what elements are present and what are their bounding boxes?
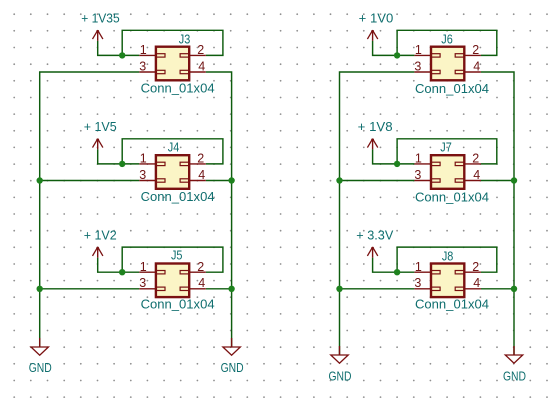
wire pin3 to left rail [340,180,415,182]
pin 1 of J7 [414,152,431,166]
power net label +1V2 [84,229,117,243]
power symbol +1V35 arrow [93,30,103,41]
power net label +1V35 [81,12,120,26]
power symbol +1V8 arrow [367,138,377,149]
wire power feed [373,258,398,273]
junction right rail [228,286,234,292]
ground symbol [331,346,348,363]
svg-text:J5: J5 [171,248,183,262]
svg-text:1: 1 [140,152,147,166]
wire to pin 1 [122,271,139,273]
wire pin2 loop [122,139,223,164]
wire pin3 to left rail [340,288,415,290]
power net label +1V0 [359,12,394,26]
svg-text:4: 4 [198,276,205,290]
svg-text:1: 1 [415,260,422,274]
svg-text:Conn_01x04: Conn_01x04 [141,190,215,204]
svg-text:3: 3 [414,59,421,73]
svg-text:J7: J7 [440,140,452,154]
pin 3 of J5 [139,276,156,290]
wire to pin 1 [122,163,139,165]
ground label GND [503,369,526,383]
svg-text:4: 4 [198,168,205,182]
svg-text:1: 1 [140,260,147,274]
value label Conn_01x04 of J3 [141,82,215,96]
power symbol +1V5 arrow [93,138,103,149]
junction [394,52,400,58]
value label Conn_01x04 of J6 [415,82,489,96]
power net label +1V8 [358,120,393,134]
reference label J5 [171,248,183,262]
junction [119,269,125,275]
svg-text:GND: GND [221,361,244,375]
pin 4 of J6 [464,59,481,73]
svg-text:Conn_01x04: Conn_01x04 [415,298,489,312]
pin 4 of J4 [189,168,206,182]
junction [394,161,400,167]
wire to pin 1 [397,163,414,165]
svg-text:GND: GND [503,369,526,383]
pin 3 of J7 [414,168,431,182]
junction left rail [37,177,43,183]
wire pin4 to right rail [206,180,232,182]
svg-text:4: 4 [198,59,205,73]
value label Conn_01x04 of J7 [415,190,489,204]
wire to pin 1 [397,54,414,56]
pin 2 of J7 [464,152,481,166]
pin 1 of J5 [139,260,156,274]
connector J8 body [431,264,465,298]
svg-text:2: 2 [197,43,204,57]
svg-text:+ 1V8: + 1V8 [358,120,393,134]
svg-text:J4: J4 [168,140,180,154]
svg-text:Conn_01x04: Conn_01x04 [415,82,489,96]
pin 4 of J5 [189,276,206,290]
wire right rail [481,72,514,355]
svg-text:4: 4 [473,59,480,73]
wire pin2 loop [397,30,497,55]
power symbol +1V2 arrow [93,247,103,258]
svg-text:4: 4 [473,276,480,290]
connector J5 body [156,264,190,298]
reference label J8 [442,249,454,263]
svg-text:1: 1 [415,43,422,57]
svg-text:J8: J8 [442,249,454,263]
svg-text:3: 3 [139,276,146,290]
svg-text:+ 1V5: + 1V5 [84,120,117,134]
pin 2 of J6 [464,43,481,57]
power symbol +1V0 arrow [367,30,377,41]
connector J7 body [431,155,465,189]
junction right rail [511,177,517,183]
pin 2 of J5 [189,260,206,274]
pin 2 of J3 [189,43,206,57]
svg-text:3: 3 [139,59,146,73]
pin 1 of J6 [414,43,431,57]
svg-text:3: 3 [414,276,421,290]
svg-text:2: 2 [472,260,479,274]
junction [394,269,400,275]
wire pin4 to right rail [481,288,514,290]
power symbol +3.3V arrow [367,247,377,258]
pin 4 of J3 [189,59,206,73]
svg-text:3: 3 [139,168,146,182]
svg-text:3: 3 [414,168,421,182]
svg-text:Conn_01x04: Conn_01x04 [141,82,215,96]
wire pin2 loop [122,247,223,272]
reference label J7 [440,140,452,154]
junction [119,161,125,167]
ground label GND [221,361,244,375]
wire pin2 loop [397,139,497,164]
ground symbol [505,346,522,363]
svg-text:+ 1V0: + 1V0 [359,12,394,26]
svg-text:1: 1 [140,43,147,57]
svg-text:GND: GND [329,369,352,383]
pin 1 of J4 [139,152,156,166]
pin 4 of J7 [464,168,481,182]
junction right rail [228,177,234,183]
junction left rail [336,177,342,183]
pin 1 of J3 [139,43,156,57]
power net label +3.3V [356,229,394,243]
svg-text:Conn_01x04: Conn_01x04 [141,297,215,311]
svg-text:J3: J3 [179,33,191,47]
svg-text:+ 3.3V: + 3.3V [356,229,394,243]
junction left rail [37,286,43,292]
wire pin2 loop [397,247,497,272]
connector J6 body [431,47,465,81]
wire pin3 to left rail [40,180,140,182]
reference label J6 [441,32,453,46]
ground symbol [223,338,240,355]
value label Conn_01x04 of J8 [415,298,489,312]
pin 3 of J6 [414,59,431,73]
pin 3 of J8 [414,276,431,290]
svg-text:4: 4 [473,168,480,182]
wire to pin 1 [122,54,139,56]
pin 2 of J8 [464,260,481,274]
pin 1 of J8 [414,260,431,274]
svg-text:2: 2 [472,43,479,57]
svg-text:+ 1V35: + 1V35 [81,12,120,26]
wire left rail [40,72,140,347]
wire power feed [98,41,123,56]
svg-text:2: 2 [197,152,204,166]
pin 4 of J8 [464,276,481,290]
wire power feed [373,41,398,56]
reference label J3 [179,33,191,47]
svg-text:2: 2 [197,260,204,274]
wire pin4 to right rail [481,180,514,182]
pin 3 of J3 [139,59,156,73]
wire pin2 loop [122,30,223,55]
ground label GND [29,361,52,375]
wire power feed [98,149,123,164]
ground label GND [329,369,352,383]
ground symbol [31,338,48,355]
junction left rail [336,286,342,292]
power net label +1V5 [84,120,117,134]
svg-text:1: 1 [415,152,422,166]
value label Conn_01x04 of J4 [141,190,215,204]
pin 2 of J4 [189,152,206,166]
svg-text:Conn_01x04: Conn_01x04 [415,190,489,204]
reference label J4 [168,140,180,154]
pin 3 of J4 [139,168,156,182]
connector J4 body [156,155,190,189]
wire right rail [206,72,232,347]
svg-text:+ 1V2: + 1V2 [84,229,117,243]
wire power feed [98,258,123,273]
junction [119,52,125,58]
svg-text:J6: J6 [441,32,453,46]
wire power feed [373,149,398,164]
wire to pin 1 [397,271,414,273]
wire left rail [340,72,415,355]
wire pin4 to right rail [206,288,232,290]
connector J3 body [156,47,190,81]
wire pin3 to left rail [40,288,140,290]
svg-text:GND: GND [29,361,52,375]
junction right rail [511,286,517,292]
svg-text:2: 2 [472,152,479,166]
value label Conn_01x04 of J5 [141,297,215,311]
